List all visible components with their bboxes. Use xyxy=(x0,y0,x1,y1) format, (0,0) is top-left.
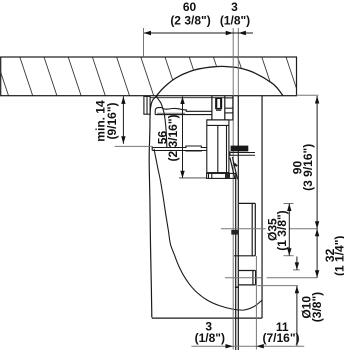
Ø35 dimension line xyxy=(288,204,290,256)
ext line 60 left xyxy=(143,28,145,57)
hole centerline xyxy=(225,277,317,279)
svg-text:(7/16"): (7/16") xyxy=(262,331,299,345)
door back face / housing right edge xyxy=(261,96,263,318)
lower rod xyxy=(152,146,207,151)
90 dimension line xyxy=(316,96,318,278)
svg-text:3: 3 xyxy=(231,0,238,14)
svg-text:(2 3/8"): (2 3/8") xyxy=(170,14,210,28)
svg-text:60: 60 xyxy=(183,0,197,14)
svg-text:(3/8"): (3/8") xyxy=(310,292,324,322)
profile line L1 xyxy=(235,178,237,350)
neck verticals xyxy=(212,96,233,120)
fitting arm (upper bar) xyxy=(155,108,212,115)
panel outline xyxy=(1,57,297,96)
flange dark cell xyxy=(226,174,229,178)
Ø10 dimension lines xyxy=(296,257,298,270)
56 dimension xyxy=(182,97,184,179)
housing bottom edge xyxy=(152,317,262,319)
arrow left (60) xyxy=(144,31,152,35)
extension line A (x=233.2) xyxy=(232,28,234,350)
hook diagonals xyxy=(230,158,235,179)
bottom dimension line xyxy=(191,345,304,347)
small link pin-to-hook xyxy=(229,151,231,156)
top dimension line xyxy=(144,32,254,34)
housing top arc xyxy=(157,66,284,95)
svg-text:(3 9/16"): (3 9/16") xyxy=(301,144,315,191)
door catch bar at cup centerline xyxy=(231,230,238,235)
cup Ø35 (section) xyxy=(234,203,255,255)
left mounting bracket xyxy=(144,96,150,114)
housing left outline xyxy=(149,96,156,318)
cup centerline xyxy=(221,228,266,230)
door swing arc (top edge path) xyxy=(157,96,167,147)
min 14 dimension xyxy=(122,96,124,143)
screw (front view, dark U with slot) xyxy=(216,98,222,109)
svg-text:(9/16"): (9/16") xyxy=(105,102,119,139)
tick connecting profile lines xyxy=(235,286,239,288)
svg-text:(1/8"): (1/8") xyxy=(195,331,225,345)
Ø35 ext ticks xyxy=(284,203,294,205)
drill hole Ø10 (section) xyxy=(239,271,256,285)
extension line C (x=256.4) xyxy=(255,256,257,350)
bottom flange xyxy=(207,173,236,178)
arrow right (60) xyxy=(226,31,234,35)
svg-text:(1 1/4"): (1 1/4") xyxy=(333,236,344,276)
right ext line from panel xyxy=(297,94,319,96)
main body xyxy=(207,120,233,173)
housing hump white cutout inside panel xyxy=(157,66,284,95)
top panel (hatched cabinet top, section) xyxy=(0,57,323,96)
svg-text:(2 3/16"): (2 3/16") xyxy=(166,114,180,161)
mounting plate top line under panel xyxy=(150,97,225,99)
door front face line xyxy=(237,96,239,350)
Ø10 ext lines xyxy=(293,269,300,271)
svg-text:(1 3/8"): (1 3/8") xyxy=(275,210,289,250)
bracket lines under pin xyxy=(230,152,255,154)
door swing arc (bottom edge path) xyxy=(154,149,262,310)
black pin xyxy=(231,146,249,152)
hook tooth xyxy=(234,164,237,167)
svg-text:(1/8"): (1/8") xyxy=(220,14,250,28)
extension/door-face line through panel (x=238.3 above door) xyxy=(237,28,239,96)
stub cells right of screw xyxy=(225,98,233,113)
arrow (3) xyxy=(238,31,246,35)
